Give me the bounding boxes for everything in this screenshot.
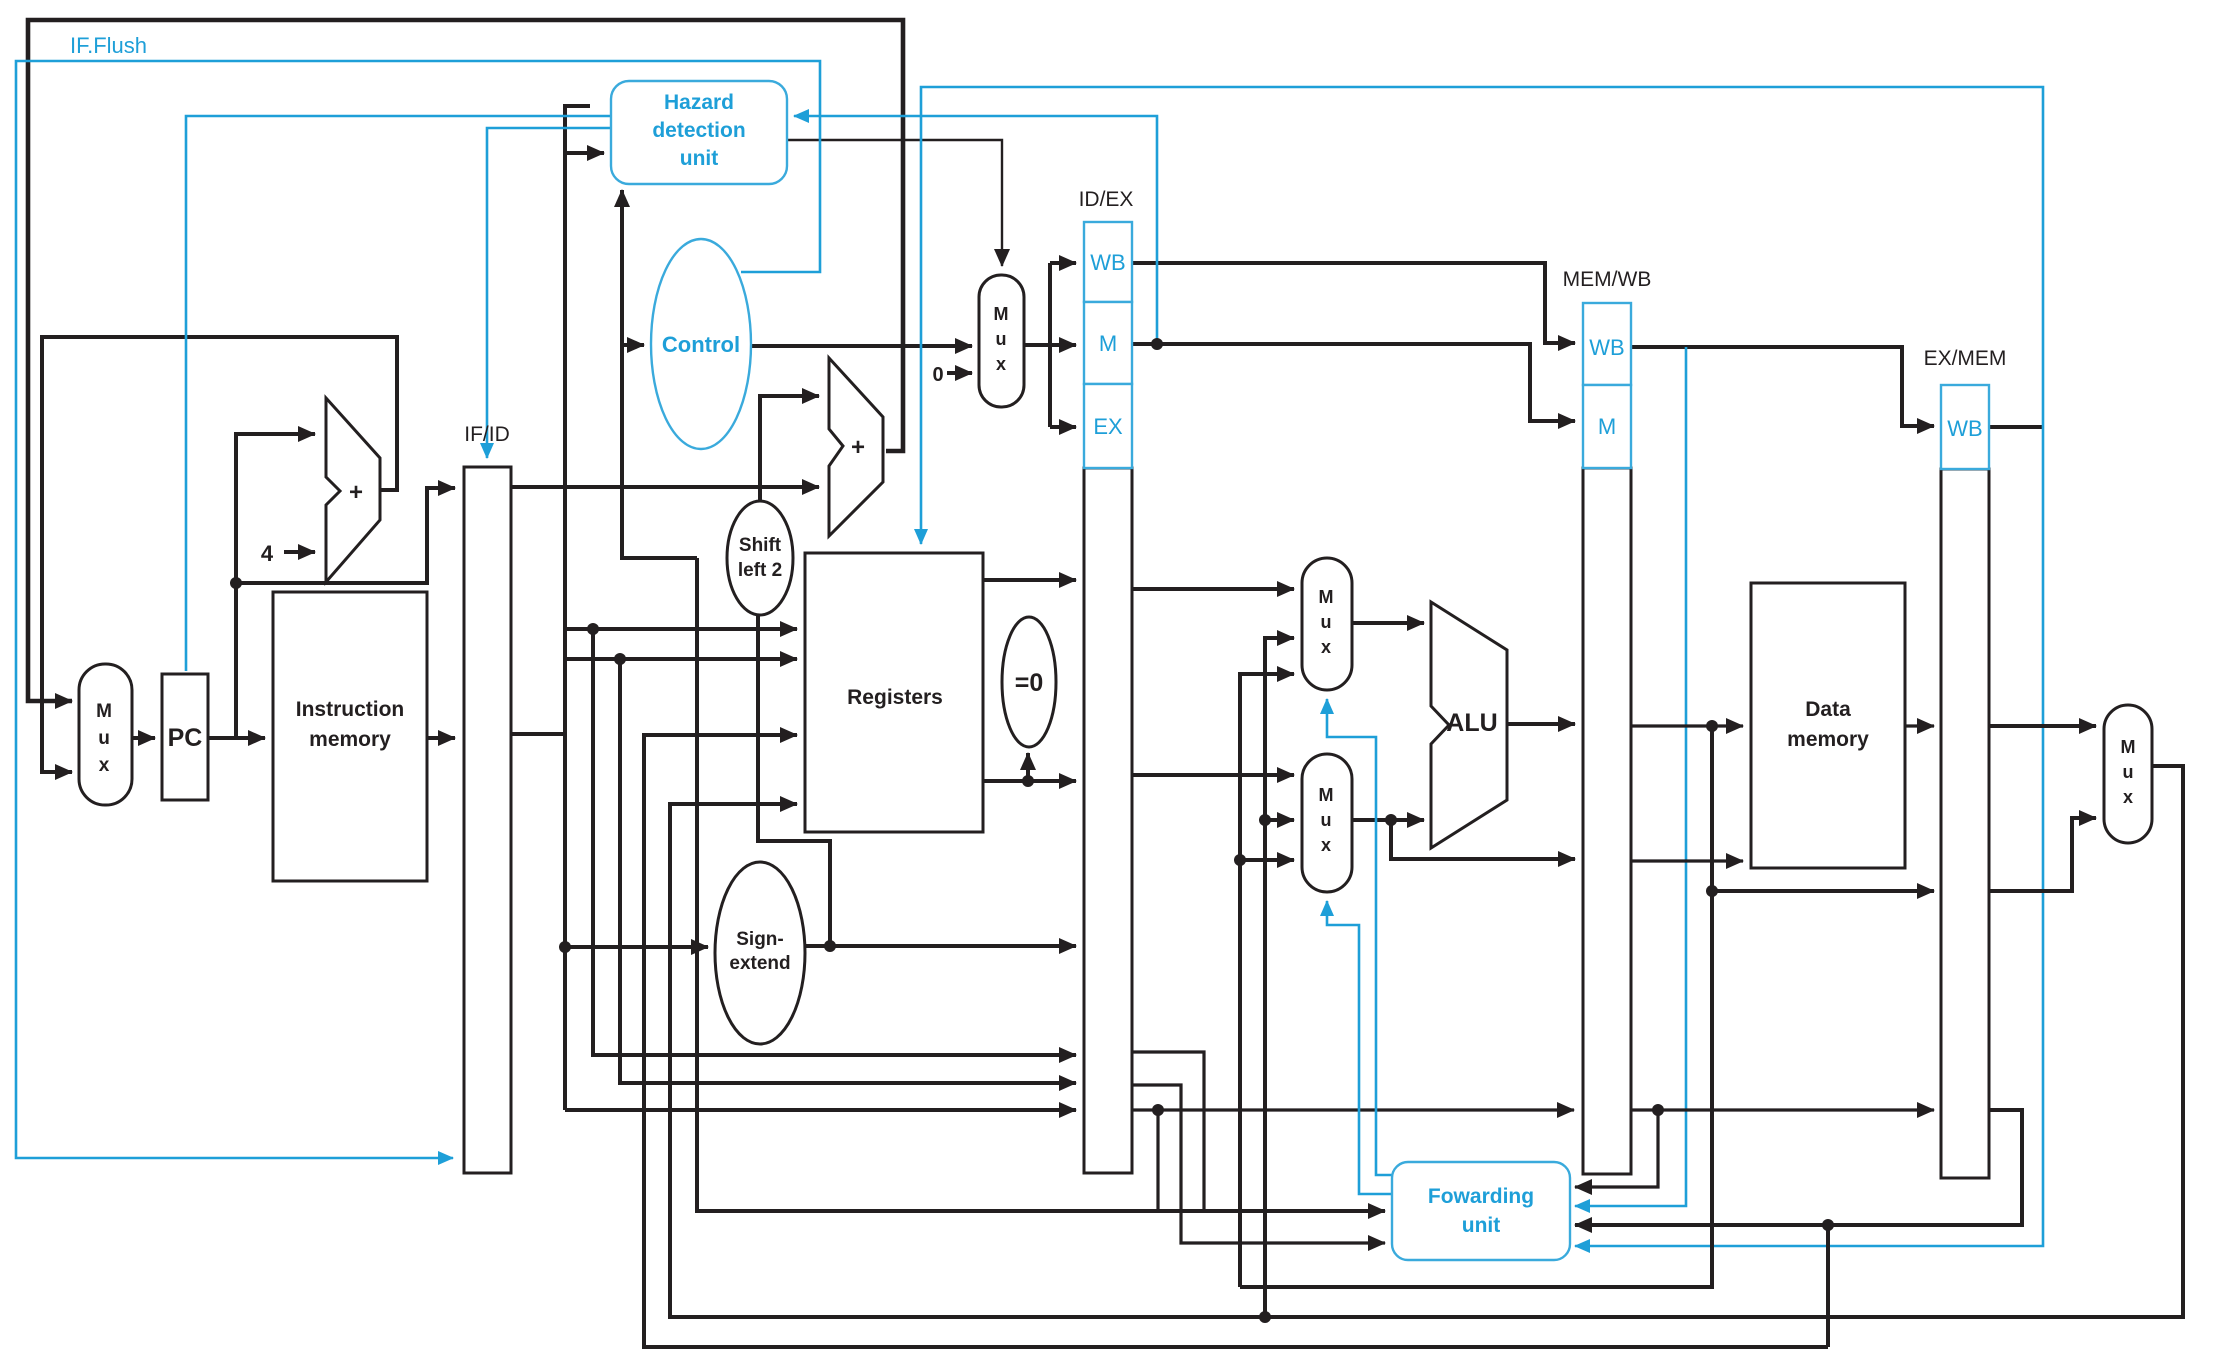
node: rt tap: [614, 653, 626, 665]
wire: read register 2 line: [565, 657, 797, 661]
wire: shift left 2 output to branch adder upper input: [760, 396, 819, 501]
adder PC+4: [326, 398, 380, 582]
wire: Data memory read data to EX/MEM: [1905, 724, 1934, 727]
wire: cyan forwarding select for MuxA: [1327, 699, 1396, 1175]
svg-text:M: M: [994, 304, 1009, 324]
svg-text:M: M: [1099, 331, 1117, 356]
wire: instruction to sign-extend: [565, 945, 708, 949]
stall Mux (zero control): [979, 275, 1024, 407]
svg-text:4: 4: [261, 541, 274, 566]
IF/ID register: [464, 423, 511, 1173]
svg-text:WB: WB: [1589, 335, 1624, 360]
wire: ID/EX rs output under register to forwarding input 1: [1132, 1052, 1204, 1211]
wire: write-back data loop from WB mux to Registers write data: [670, 766, 2183, 1317]
svg-text:M: M: [2121, 737, 2136, 757]
node: sign-extend output tap: [824, 940, 836, 952]
wire: cyan EX/MEM RegWrite over top to Registers write port: [921, 87, 2043, 544]
MuxB (ALU operand B forwarding mux): [1302, 754, 1352, 892]
wire: MEM/WB rd under register into forwarding unit: [1575, 1110, 1658, 1187]
wire: MEM/WB store data to Data memory write data: [1632, 859, 1743, 862]
svg-text:x: x: [1321, 637, 1331, 657]
wire: instruction bus from IF/ID: [511, 732, 565, 736]
node: read data 2 tap: [1022, 775, 1034, 787]
wire: black tap EX/MEM WB output to RegWrite riser: [1990, 425, 2043, 429]
svg-text:u: u: [98, 728, 110, 749]
svg-text:extend: extend: [729, 953, 790, 974]
wire: EX/MEM rd route into forwarding unit: [1575, 1110, 2022, 1225]
wire: 0 constant into stall Mux: [947, 371, 972, 375]
wire: MEM/WB WB bundle to EX/MEM WB: [1632, 347, 1934, 426]
svg-text:x: x: [996, 354, 1006, 374]
svg-text:Instruction: Instruction: [296, 698, 405, 721]
svg-text:x: x: [1321, 835, 1331, 855]
svg-text:u: u: [996, 329, 1007, 349]
wire: forward V2 from write-back data line up to muxes: [1265, 638, 1294, 1317]
svg-text:ALU: ALU: [1446, 709, 1497, 737]
svg-text:M: M: [1598, 414, 1616, 439]
MuxA (ALU operand A forwarding mux): [1302, 558, 1352, 690]
sign-extend unit: [715, 862, 805, 1044]
svg-text:+: +: [349, 479, 363, 506]
wire: store data from MuxB line to MEM/WB: [1391, 820, 1575, 859]
wire: write register number loop from bottom to Registers: [644, 735, 1828, 1347]
=0 comparator: [1002, 617, 1056, 747]
node: MuxB store data tap: [1385, 814, 1397, 826]
svg-text:=0: =0: [1015, 669, 1044, 697]
svg-text:Shift: Shift: [739, 535, 782, 556]
svg-text:x: x: [2123, 787, 2133, 807]
wire: cyan ID/EX.MemRead up to hazard detection unit: [794, 116, 1157, 344]
wire: forward V1 from EX/MEM result line up to muxes: [1240, 674, 1294, 1287]
svg-text:M: M: [96, 701, 112, 722]
wire: rt field drop to ID/EX: [620, 659, 1076, 1083]
wire: EX/MEM result forward route: [1240, 891, 1712, 1287]
data memory: [1751, 583, 1905, 868]
control unit: [651, 239, 751, 449]
svg-text:IF.Flush: IF.Flush: [70, 33, 147, 58]
svg-text:EX/MEM: EX/MEM: [1924, 347, 2007, 370]
svg-text:unit: unit: [680, 147, 718, 170]
svg-text:0: 0: [932, 364, 943, 386]
wire: ALU result bypass down to EX/MEM: [1712, 726, 1934, 891]
PC register: [162, 674, 208, 800]
wire: cyan MEM/WB RegWrite down to forwarding unit: [1575, 347, 1686, 1206]
wire: read register 1 line: [565, 627, 797, 631]
ID/EX pipeline register: [1079, 188, 1134, 1173]
svg-text:Hazard: Hazard: [664, 91, 734, 114]
wire: instruction bus vertical: [565, 106, 590, 1110]
wire: cyan IF/ID write from hazard to IF/ID: [487, 128, 611, 458]
wire: hazard detection output to stall Mux select: [787, 140, 1002, 266]
svg-text:Control: Control: [662, 332, 740, 357]
node: rd tap at ID/EX: [1152, 1104, 1164, 1116]
wire: cyan forwarding select for MuxB: [1327, 901, 1394, 1194]
svg-text:M: M: [1319, 785, 1334, 805]
node: rs tap: [587, 623, 599, 635]
wire: Instruction memory output to IF/ID: [427, 736, 455, 740]
wire: ALU result to MEM/WB: [1508, 722, 1575, 726]
svg-text:Registers: Registers: [847, 686, 943, 709]
svg-text:EX: EX: [1093, 414, 1123, 439]
svg-text:Sign-: Sign-: [736, 929, 784, 950]
wire: EX/MEM ALU result to WB Mux input 2: [1990, 818, 2096, 891]
svg-text:WB: WB: [1947, 416, 1982, 441]
hazard detection unit U1: [611, 81, 787, 184]
wire: IF.Flush from Control over top to IF/ID: [16, 61, 820, 1158]
wire: rs field drop to ID/EX: [593, 629, 1076, 1055]
node: V1 tap for MuxB: [1234, 854, 1246, 866]
node: ID/EX MemRead tap: [1151, 338, 1163, 350]
fowarding unit: [1392, 1162, 1570, 1260]
wire: ID/EX rt output to forwarding unit input 2: [1132, 1085, 1385, 1243]
wire: 4 constant into adder: [284, 550, 315, 554]
svg-text:M: M: [1319, 587, 1334, 607]
svg-text:ID/EX: ID/EX: [1079, 188, 1134, 211]
wire: rd drop to write register number line: [1826, 1225, 1830, 1347]
svg-text:u: u: [1321, 810, 1332, 830]
wire: stall input arrow into hazard detection unit: [565, 151, 604, 155]
svg-text:+: +: [851, 434, 865, 461]
svg-text:u: u: [1321, 612, 1332, 632]
wire: rt to hazard detection unit (up): [622, 190, 697, 558]
svg-text:detection: detection: [652, 119, 745, 142]
node: rd tap at MEM/WB: [1652, 1104, 1664, 1116]
node: rd tap to write register line: [1822, 1219, 1834, 1231]
registers file: [805, 553, 983, 832]
svg-text:MEM/WB: MEM/WB: [1563, 268, 1652, 291]
node: sign-extend input tap: [559, 941, 571, 953]
shift left 2 unit: [727, 501, 793, 615]
svg-text:unit: unit: [1462, 1214, 1500, 1237]
wire: read data 2 tap up into =0 comparator: [1026, 753, 1030, 781]
wire: left Mux output to PC: [132, 736, 155, 740]
wire: sign-extend output tap up to shift left 2: [758, 616, 830, 946]
wire: MuxA output to ALU: [1352, 621, 1424, 625]
MEM/WB pipeline register: [1563, 268, 1652, 1174]
node: PC+4 junction: [230, 577, 242, 589]
wire: cyan PCWrite from hazard to PC: [186, 116, 611, 671]
svg-text:IF/ID: IF/ID: [464, 423, 510, 446]
wire: MEM/WB ALU result to Data memory address: [1632, 724, 1743, 727]
wire: Registers read data 2 to ID/EX: [983, 779, 1076, 783]
node: V2 tap for MuxB: [1259, 814, 1271, 826]
wire: PC+4 loop (adder output up to y=337, left, down to left Mux input 2): [42, 337, 397, 772]
wire: PC+4 to IF/ID input: [236, 488, 455, 583]
wire: stall Mux output bracket into ID/EX WB M EX: [1025, 263, 1076, 427]
svg-text:x: x: [99, 755, 110, 776]
svg-text:left 2: left 2: [738, 560, 782, 581]
wire: riser from PC output to +4 adder input: [236, 434, 315, 738]
wire: ID/EX output to MuxA input 1: [1132, 587, 1294, 591]
ALU: [1431, 602, 1507, 848]
wire: MuxB output to ALU: [1352, 818, 1424, 822]
svg-text:PC: PC: [168, 724, 203, 752]
wire: PC output to Instruction memory: [208, 736, 265, 740]
instruction memory: [273, 592, 427, 881]
svg-text:Data: Data: [1805, 698, 1851, 721]
wire: ID/EX WB bundle to MEM/WB WB: [1132, 263, 1575, 343]
node: ALU result bypass tap: [1706, 885, 1718, 897]
svg-text:WB: WB: [1090, 250, 1125, 275]
wire: instruction bus into ID/EX: [565, 1108, 1076, 1112]
svg-text:memory: memory: [309, 728, 391, 751]
svg-text:u: u: [2123, 762, 2134, 782]
wire: destination register field through pipeline: [1132, 1108, 1574, 1111]
wire: IF/ID PC value to branch adder lower input: [511, 485, 819, 489]
wire: rd drop joining forwarding input line: [1156, 1110, 1159, 1211]
wire: rt line under ID/EX to forwarding unit input 1: [697, 558, 1385, 1211]
wire: ID/EX output to MuxB input 1: [1132, 773, 1294, 777]
left Mux (PC source): [79, 664, 132, 805]
svg-text:Fowarding: Fowarding: [1428, 1185, 1534, 1208]
wire: sign-extend output to ID/EX: [805, 944, 1076, 948]
wire: tap from instruction vertical to Control: [622, 343, 644, 347]
EX/MEM pipeline register: [1924, 347, 2007, 1178]
node: data memory address tap: [1706, 720, 1718, 732]
wire: Control output to stall Mux: [751, 344, 972, 348]
wire: EX/MEM read data to WB Mux input 1: [1990, 724, 2096, 728]
wire: cyan EX/MEM RegWrite down to forwarding unit: [1575, 427, 2043, 1246]
svg-text:memory: memory: [1787, 728, 1869, 751]
wire: branch target loop (adder output up over top to left Mux input 1): [28, 20, 903, 701]
wire: Registers read data 1 to ID/EX: [983, 578, 1076, 582]
WB Mux (write-back source): [2104, 705, 2152, 843]
node: V2 tap on write-back data line: [1259, 1311, 1271, 1323]
wire: ID/EX M bundle to MEM/WB M: [1132, 344, 1575, 421]
branch adder: [829, 358, 883, 536]
